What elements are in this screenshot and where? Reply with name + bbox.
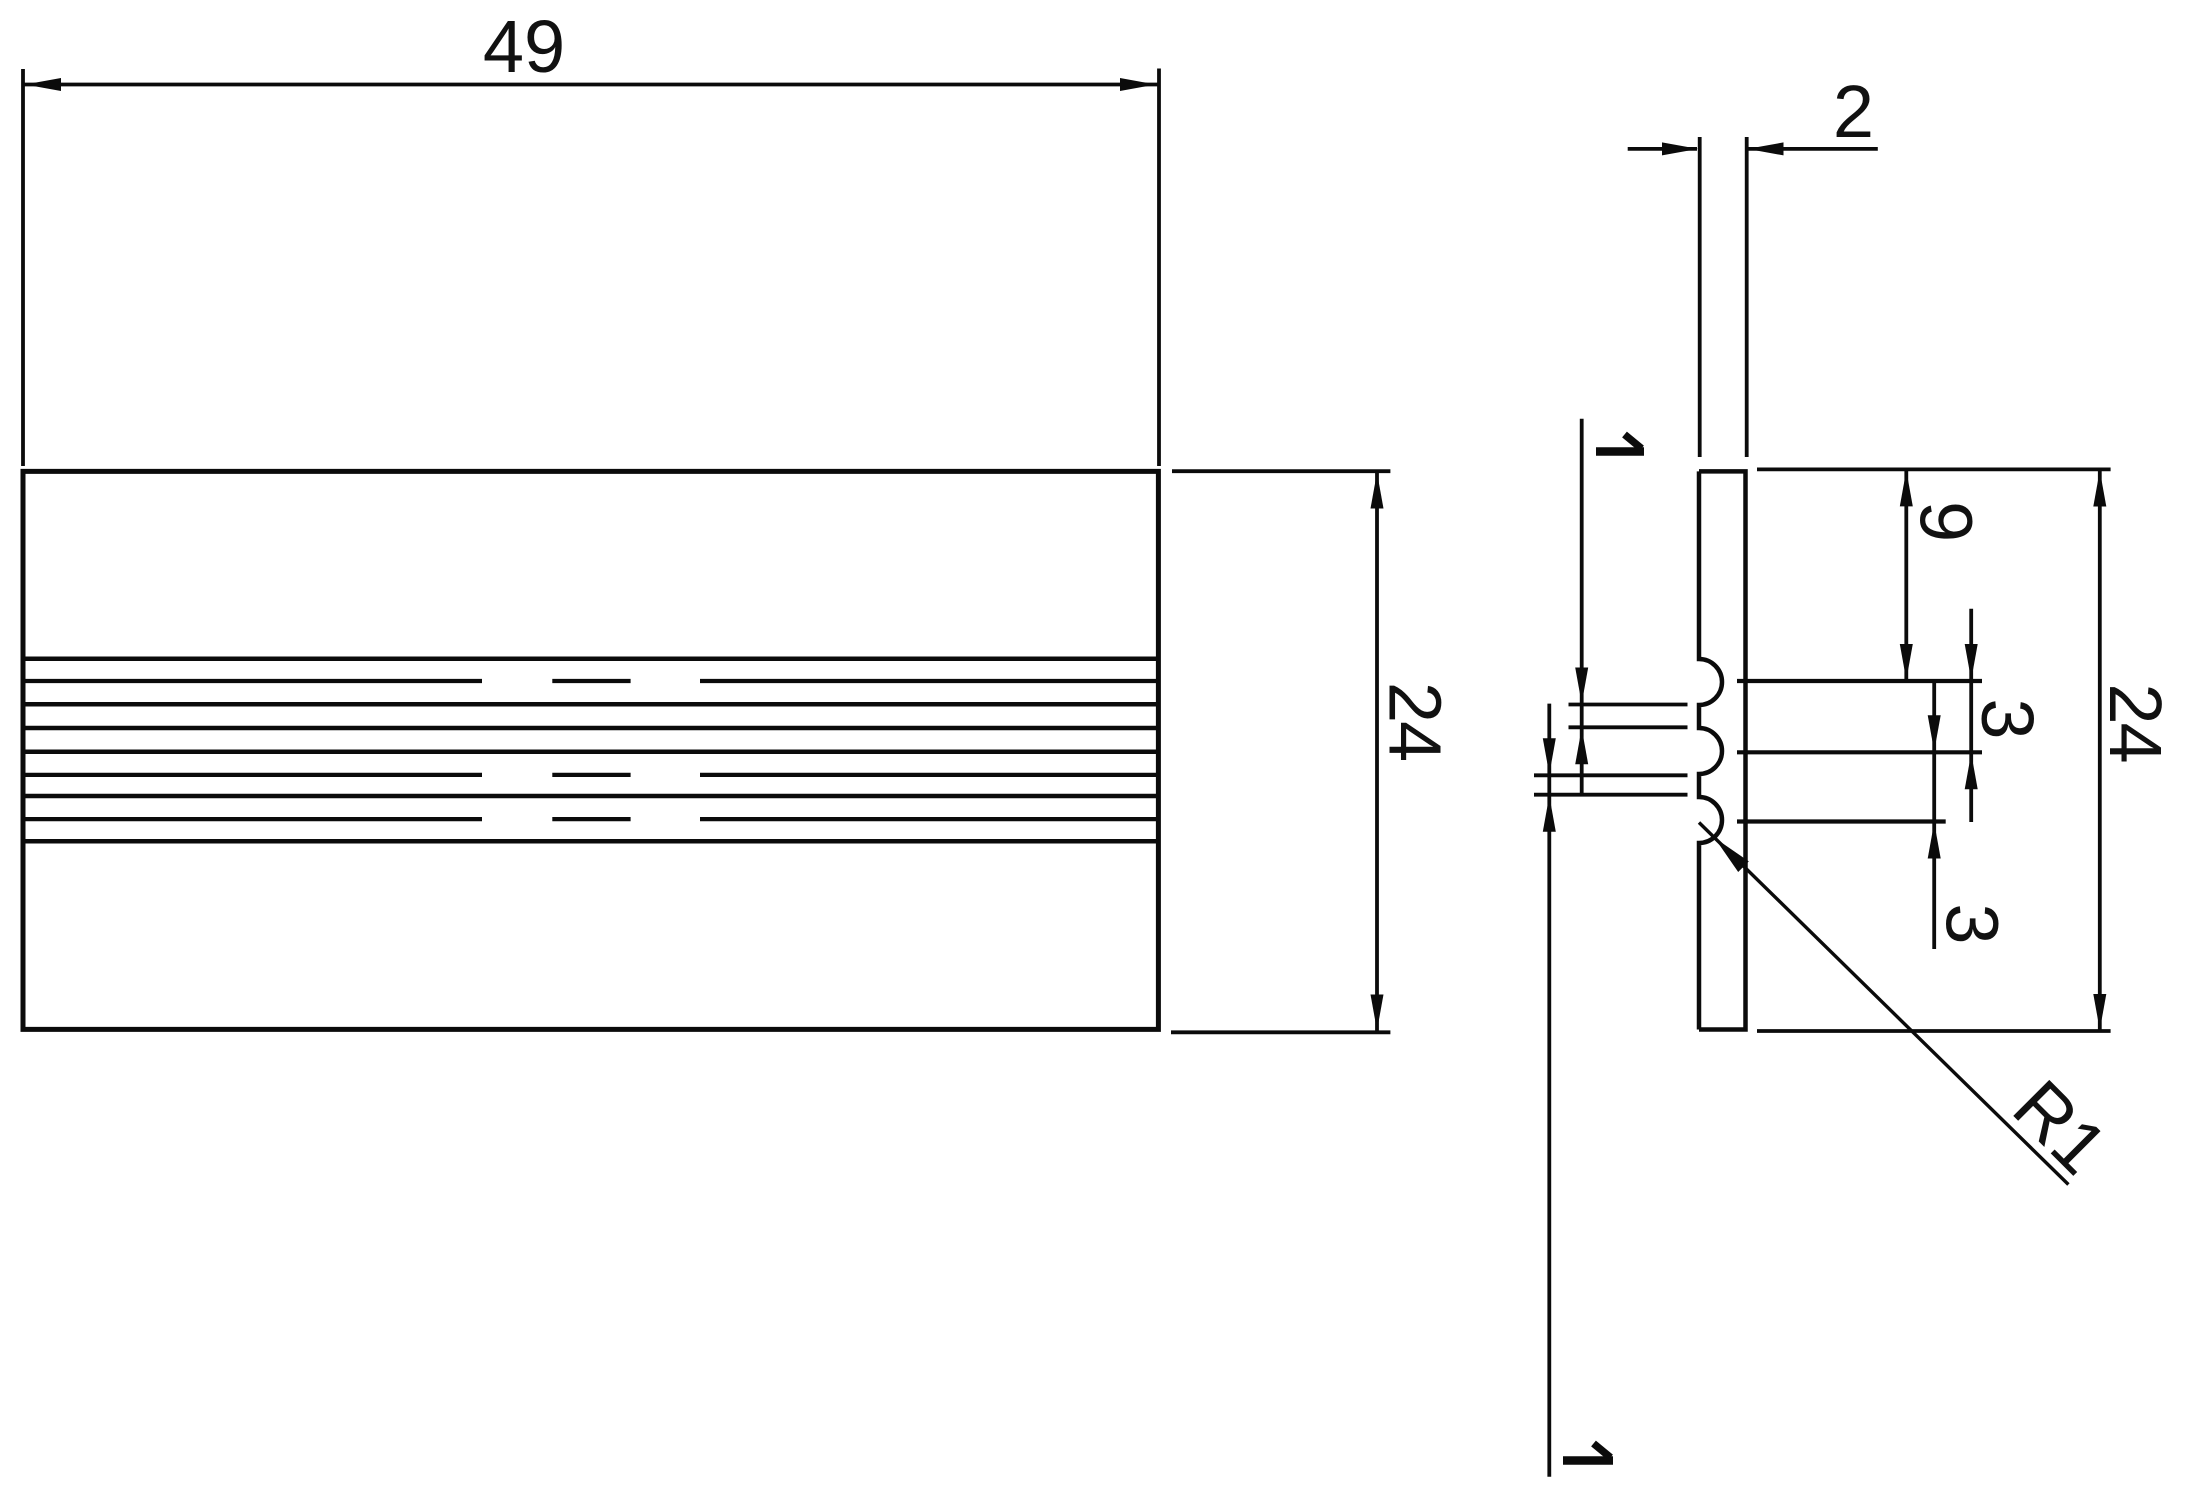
- svg-text:3: 3: [1966, 698, 2049, 739]
- svg-text:3: 3: [1931, 903, 2014, 944]
- svg-text:49: 49: [483, 5, 565, 88]
- svg-text:24: 24: [2094, 683, 2177, 761]
- svg-text:24: 24: [1373, 682, 1456, 760]
- svg-text:2: 2: [1833, 70, 1874, 153]
- svg-text:R1: R1: [1998, 1064, 2124, 1190]
- svg-text:9: 9: [1904, 501, 1987, 542]
